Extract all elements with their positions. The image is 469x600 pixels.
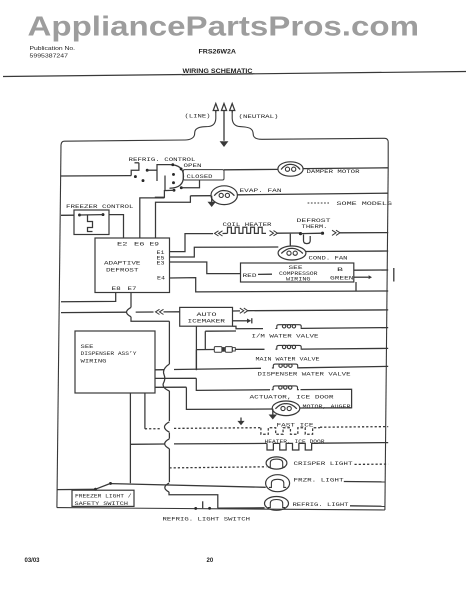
- svg-text:REFRIG. LIGHT SWITCH: REFRIG. LIGHT SWITCH: [163, 516, 251, 522]
- svg-text:(LINE): (LINE): [185, 114, 211, 120]
- svg-text:ADAPTIVE: ADAPTIVE: [104, 260, 141, 266]
- svg-text:CLOSED: CLOSED: [187, 174, 213, 180]
- svg-text:SEE: SEE: [81, 344, 94, 350]
- svg-text:DAMPER MOTOR: DAMPER MOTOR: [307, 169, 360, 175]
- svg-text:FREEZER CONTROL: FREEZER CONTROL: [66, 204, 134, 210]
- svg-text:FAST ICE: FAST ICE: [277, 422, 314, 428]
- svg-text:E7: E7: [128, 286, 137, 292]
- svg-text:20: 20: [207, 558, 214, 564]
- svg-text:COND. FAN: COND. FAN: [309, 255, 348, 261]
- svg-text:WIRING: WIRING: [81, 358, 107, 364]
- svg-text:E9: E9: [150, 241, 160, 247]
- svg-text:SOME MODELS: SOME MODELS: [337, 201, 393, 207]
- svg-text:DISPENSER WATER VALVE: DISPENSER WATER VALVE: [258, 372, 351, 378]
- svg-text:RED: RED: [243, 273, 257, 279]
- svg-text:FRS26W2A: FRS26W2A: [199, 49, 237, 56]
- svg-text:AppliancePartsPros.com: AppliancePartsPros.com: [28, 11, 420, 42]
- svg-text:EVAP. FAN: EVAP. FAN: [240, 188, 282, 194]
- svg-text:MAIN WATER VALVE: MAIN WATER VALVE: [256, 356, 320, 362]
- svg-text:FRZR. LIGHT: FRZR. LIGHT: [294, 477, 344, 483]
- svg-text:E4: E4: [157, 276, 165, 282]
- svg-text:GREEN: GREEN: [330, 276, 354, 282]
- svg-text:WIRING: WIRING: [286, 276, 311, 282]
- svg-text:E3: E3: [157, 261, 165, 267]
- svg-text:03/03: 03/03: [25, 558, 41, 564]
- svg-text:CRISPER LIGHT: CRISPER LIGHT: [294, 461, 353, 467]
- svg-text:REFRIG. LIGHT: REFRIG. LIGHT: [293, 502, 349, 508]
- svg-text:E6: E6: [134, 241, 145, 247]
- svg-text:SAFETY SWITCH: SAFETY SWITCH: [75, 501, 129, 507]
- svg-text:AUTO: AUTO: [197, 312, 217, 318]
- svg-text:FREEZER LIGHT /: FREEZER LIGHT /: [75, 494, 132, 500]
- svg-text:I/M WATER VALVE: I/M WATER VALVE: [252, 334, 319, 340]
- svg-text:(NEUTRAL): (NEUTRAL): [239, 114, 279, 120]
- svg-text:E8: E8: [112, 286, 121, 292]
- svg-text:OPEN: OPEN: [184, 163, 202, 169]
- svg-text:ICEMAKER: ICEMAKER: [188, 319, 226, 325]
- svg-text:5995387247: 5995387247: [30, 54, 69, 60]
- svg-text:DEFROST: DEFROST: [106, 268, 139, 274]
- svg-text:Publication No.: Publication No.: [30, 46, 76, 52]
- svg-text:B: B: [337, 267, 343, 273]
- svg-text:DISPENSER ASS’Y: DISPENSER ASS’Y: [81, 351, 138, 357]
- svg-text:ACTUATOR, ICE DOOR: ACTUATOR, ICE DOOR: [250, 395, 334, 401]
- svg-text:E2: E2: [117, 241, 128, 247]
- svg-text:THERM.: THERM.: [302, 224, 328, 230]
